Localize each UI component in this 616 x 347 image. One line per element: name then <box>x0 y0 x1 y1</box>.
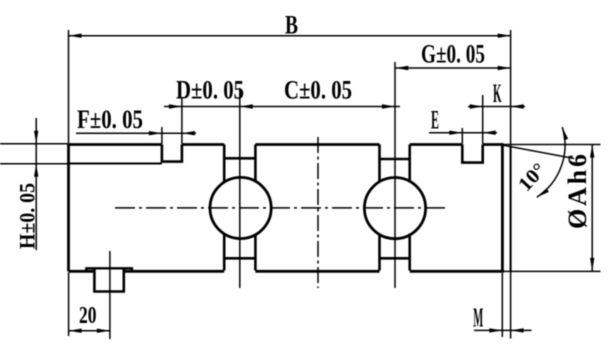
dim line E <box>429 132 497 134</box>
svg-text:C±0. 05: C±0. 05 <box>284 76 352 105</box>
extension top edge leftward (H) <box>0 143 68 145</box>
arrow M left <box>489 328 502 332</box>
body top edge <box>69 143 504 146</box>
arrow G left <box>395 66 408 70</box>
arrow 20 left <box>69 329 82 333</box>
arrow 20 right <box>97 329 110 333</box>
svg-text:ØAh6: ØAh6 <box>563 154 592 229</box>
dim line diameter A <box>591 145 593 271</box>
dim line D C K <box>164 106 525 108</box>
arrow G right <box>498 66 511 70</box>
extension line left top (for B) <box>68 30 70 143</box>
dim line M <box>474 329 532 331</box>
arrow K right <box>511 104 524 108</box>
arrow M right <box>511 328 524 332</box>
svg-text:F±0. 05: F±0. 05 <box>77 105 143 134</box>
middle vertical centerline <box>317 137 319 288</box>
mounting pad <box>94 269 123 291</box>
body left edge <box>67 143 70 271</box>
body bottom edge <box>69 270 505 273</box>
arrow H bottom <box>34 164 38 177</box>
dim line 20 <box>69 330 110 332</box>
arrow D right / C left <box>240 104 253 108</box>
svg-text:H±0. 05: H±0. 05 <box>15 183 40 249</box>
horizontal centerline <box>115 207 446 209</box>
arrow F right <box>182 131 195 135</box>
svg-text:K: K <box>493 79 502 108</box>
hole 2 centerline <box>394 62 396 288</box>
slot above hole 2 <box>380 145 410 183</box>
extension M left <box>501 273 503 337</box>
hole 2 circle <box>364 178 425 239</box>
end face line <box>510 147 512 271</box>
10 deg sloped line <box>503 145 574 158</box>
extension top edge rightward (angle/diam) <box>504 144 601 146</box>
arrow K left <box>470 104 483 108</box>
body right edge <box>501 143 504 272</box>
arrow diamA bottom <box>590 258 594 271</box>
mounting pad flange <box>86 268 132 271</box>
dim line H <box>35 118 37 250</box>
svg-text:20: 20 <box>79 303 97 329</box>
arrow arc top <box>562 127 568 140</box>
arrow B left <box>69 34 82 38</box>
extension notchE left <box>461 128 463 144</box>
extension notch1 right (for D) <box>181 97 183 144</box>
svg-text:B: B <box>285 11 298 40</box>
extension bottom edge rightward (diam) <box>504 270 601 272</box>
dim line F <box>76 132 196 134</box>
svg-text:M: M <box>473 303 483 333</box>
dim line B <box>69 35 511 37</box>
slot above hole 1 <box>224 145 255 183</box>
extension step leftward (H) <box>0 163 68 165</box>
slot below hole 1 <box>224 234 255 271</box>
arrow H top <box>34 131 38 144</box>
arrow diamA top <box>590 145 594 158</box>
extension notchE right (for K) <box>482 95 484 144</box>
svg-text:D±0. 05: D±0. 05 <box>176 76 244 105</box>
hole 1 circle <box>210 177 271 238</box>
arrow D left <box>169 104 182 108</box>
svg-text:E: E <box>431 106 439 135</box>
step line left section <box>69 163 162 165</box>
notch E (second top notch) <box>462 145 482 163</box>
notch D (first top notch) <box>162 145 182 162</box>
arrow E left <box>449 131 462 135</box>
arrow arc bottom <box>537 188 549 197</box>
arrow F left <box>149 131 162 135</box>
extension notch1 left (for F) <box>161 127 163 144</box>
hole 1 centerline <box>239 88 241 288</box>
arrow B right <box>498 34 511 38</box>
extension left edge below (for 20) <box>68 273 70 337</box>
slot below hole 2 <box>380 234 410 271</box>
pad centerline <box>109 251 111 339</box>
svg-text:G±0. 05: G±0. 05 <box>421 40 485 69</box>
arrow E right <box>483 131 496 135</box>
angle arc <box>537 127 565 197</box>
dim line G <box>395 67 510 69</box>
extension line right main <box>510 30 512 339</box>
arrow C right <box>382 104 395 108</box>
